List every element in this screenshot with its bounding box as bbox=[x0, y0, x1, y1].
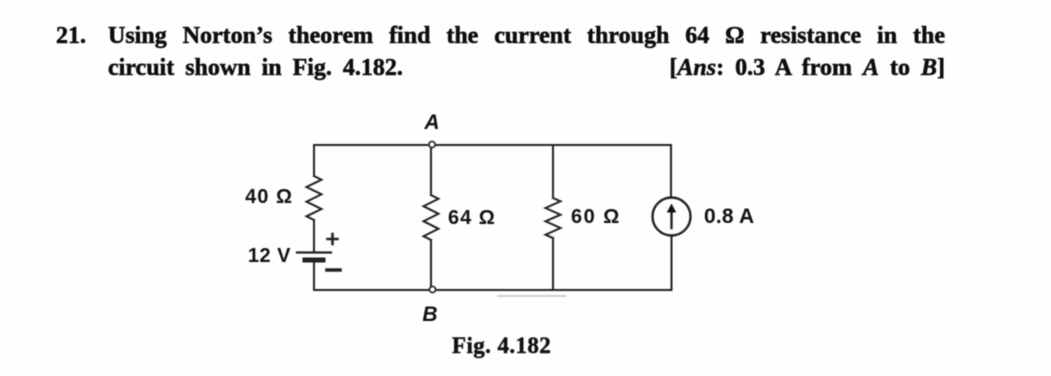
svg-text:0.8 A: 0.8 A bbox=[704, 205, 754, 228]
svg-text:60 Ω: 60 Ω bbox=[571, 206, 621, 228]
svg-text:64 Ω: 64 Ω bbox=[448, 207, 496, 229]
svg-text:A: A bbox=[423, 111, 439, 134]
svg-text:12 V: 12 V bbox=[248, 245, 291, 267]
svg-text:B: B bbox=[422, 303, 437, 326]
svg-text:40 Ω: 40 Ω bbox=[245, 186, 293, 208]
